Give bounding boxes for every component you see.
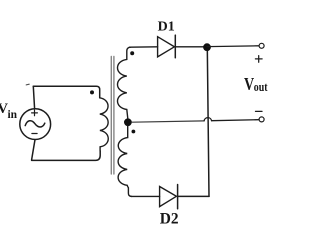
- svg-text:Vout: Vout: [244, 76, 268, 95]
- wire: source bottom lead: [32, 140, 35, 160]
- wire: D2 cathode to corner: [178, 195, 209, 197]
- AC source VS circle: [20, 109, 51, 140]
- diode D1 triangle: [158, 37, 175, 57]
- primary phase dot: [90, 90, 94, 94]
- wire: + rail vertical (D2 cathode up to junction): [207, 47, 209, 196]
- wire: hop to − output terminal: [212, 120, 259, 121]
- junction dot on + rail: [203, 43, 211, 51]
- svg-text:D2: D2: [160, 210, 179, 227]
- stray tick mark top-left: [26, 83, 29, 86]
- AC source minus sign: [32, 133, 37, 135]
- diode D2 triangle: [160, 187, 177, 207]
- wire: secondary bottom to D2 anode: [131, 195, 160, 197]
- wire hop over + rail: [204, 118, 212, 121]
- wire: secondary top to D1 anode: [130, 46, 158, 48]
- wire: D1 cathode to junction dot: [175, 46, 204, 48]
- wire: top of primary loop: [33, 86, 99, 98]
- svg-text:Vin: Vin: [0, 101, 18, 121]
- transformer core line 1: [110, 57, 112, 175]
- svg-text:D1: D1: [158, 20, 175, 35]
- + output terminal (open circle): [259, 43, 264, 48]
- diode D2 cathode bar: [177, 185, 179, 209]
- transformer core line 2: [113, 57, 115, 175]
- label − at output: [256, 110, 263, 112]
- diode D1 cathode bar: [174, 35, 176, 58]
- transformer primary winding L1: [100, 98, 109, 151]
- secondary phase dot (lower): [132, 130, 136, 134]
- transformer secondary top winding: [118, 47, 131, 118]
- wire: junction to + output terminal: [207, 45, 259, 48]
- center tap junction dot: [124, 118, 132, 126]
- AC source plus sign: [32, 110, 38, 116]
- AC source sine wave: [25, 121, 45, 127]
- wire: center tap to hop: [132, 121, 204, 122]
- secondary phase dot (top): [130, 51, 134, 55]
- wire: bottom of primary loop: [32, 151, 101, 161]
- − output terminal (open circle): [259, 117, 264, 122]
- label + at output: [255, 56, 262, 63]
- transformer secondary bottom winding: [118, 126, 131, 196]
- wire: left vertical (source top lead): [33, 86, 34, 109]
